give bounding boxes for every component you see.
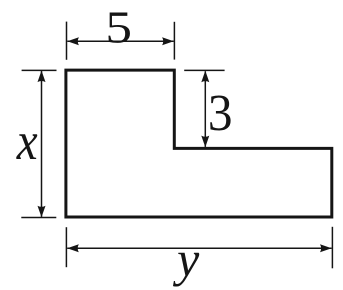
dimension 3: shaft: [204, 71, 206, 147]
svg-text:x: x: [16, 111, 38, 171]
dimension 5: left extension line: [66, 22, 68, 60]
dimension 5: right arrowhead: [162, 37, 174, 45]
dimension x: bottom arrowhead: [38, 206, 46, 218]
svg-text:3: 3: [208, 84, 233, 141]
dimension x: bottom tick: [21, 217, 56, 219]
dimension y: left arrowhead: [67, 244, 79, 252]
dimension y: left extension line: [65, 227, 67, 267]
dimension y: dimension line: [67, 247, 331, 249]
dimension x: top tick: [22, 69, 57, 71]
dimension 5: dimension line: [67, 40, 173, 42]
dimension 3: bottom arrowhead: [201, 136, 209, 148]
svg-text:5: 5: [105, 2, 132, 53]
svg-text:y: y: [172, 231, 200, 287]
dimension x: shaft: [41, 71, 43, 217]
dimension 3: top arrowhead: [201, 71, 209, 83]
dimension 5: right extension line: [173, 22, 175, 60]
dimension 3: top tick: [184, 69, 224, 71]
dimension x: top arrowhead: [38, 71, 46, 83]
dimension y: right extension line: [331, 227, 333, 268]
dimension y: right arrowhead: [320, 244, 332, 252]
L-shape outline: [66, 70, 332, 217]
dimension 5: left arrowhead: [67, 37, 79, 45]
